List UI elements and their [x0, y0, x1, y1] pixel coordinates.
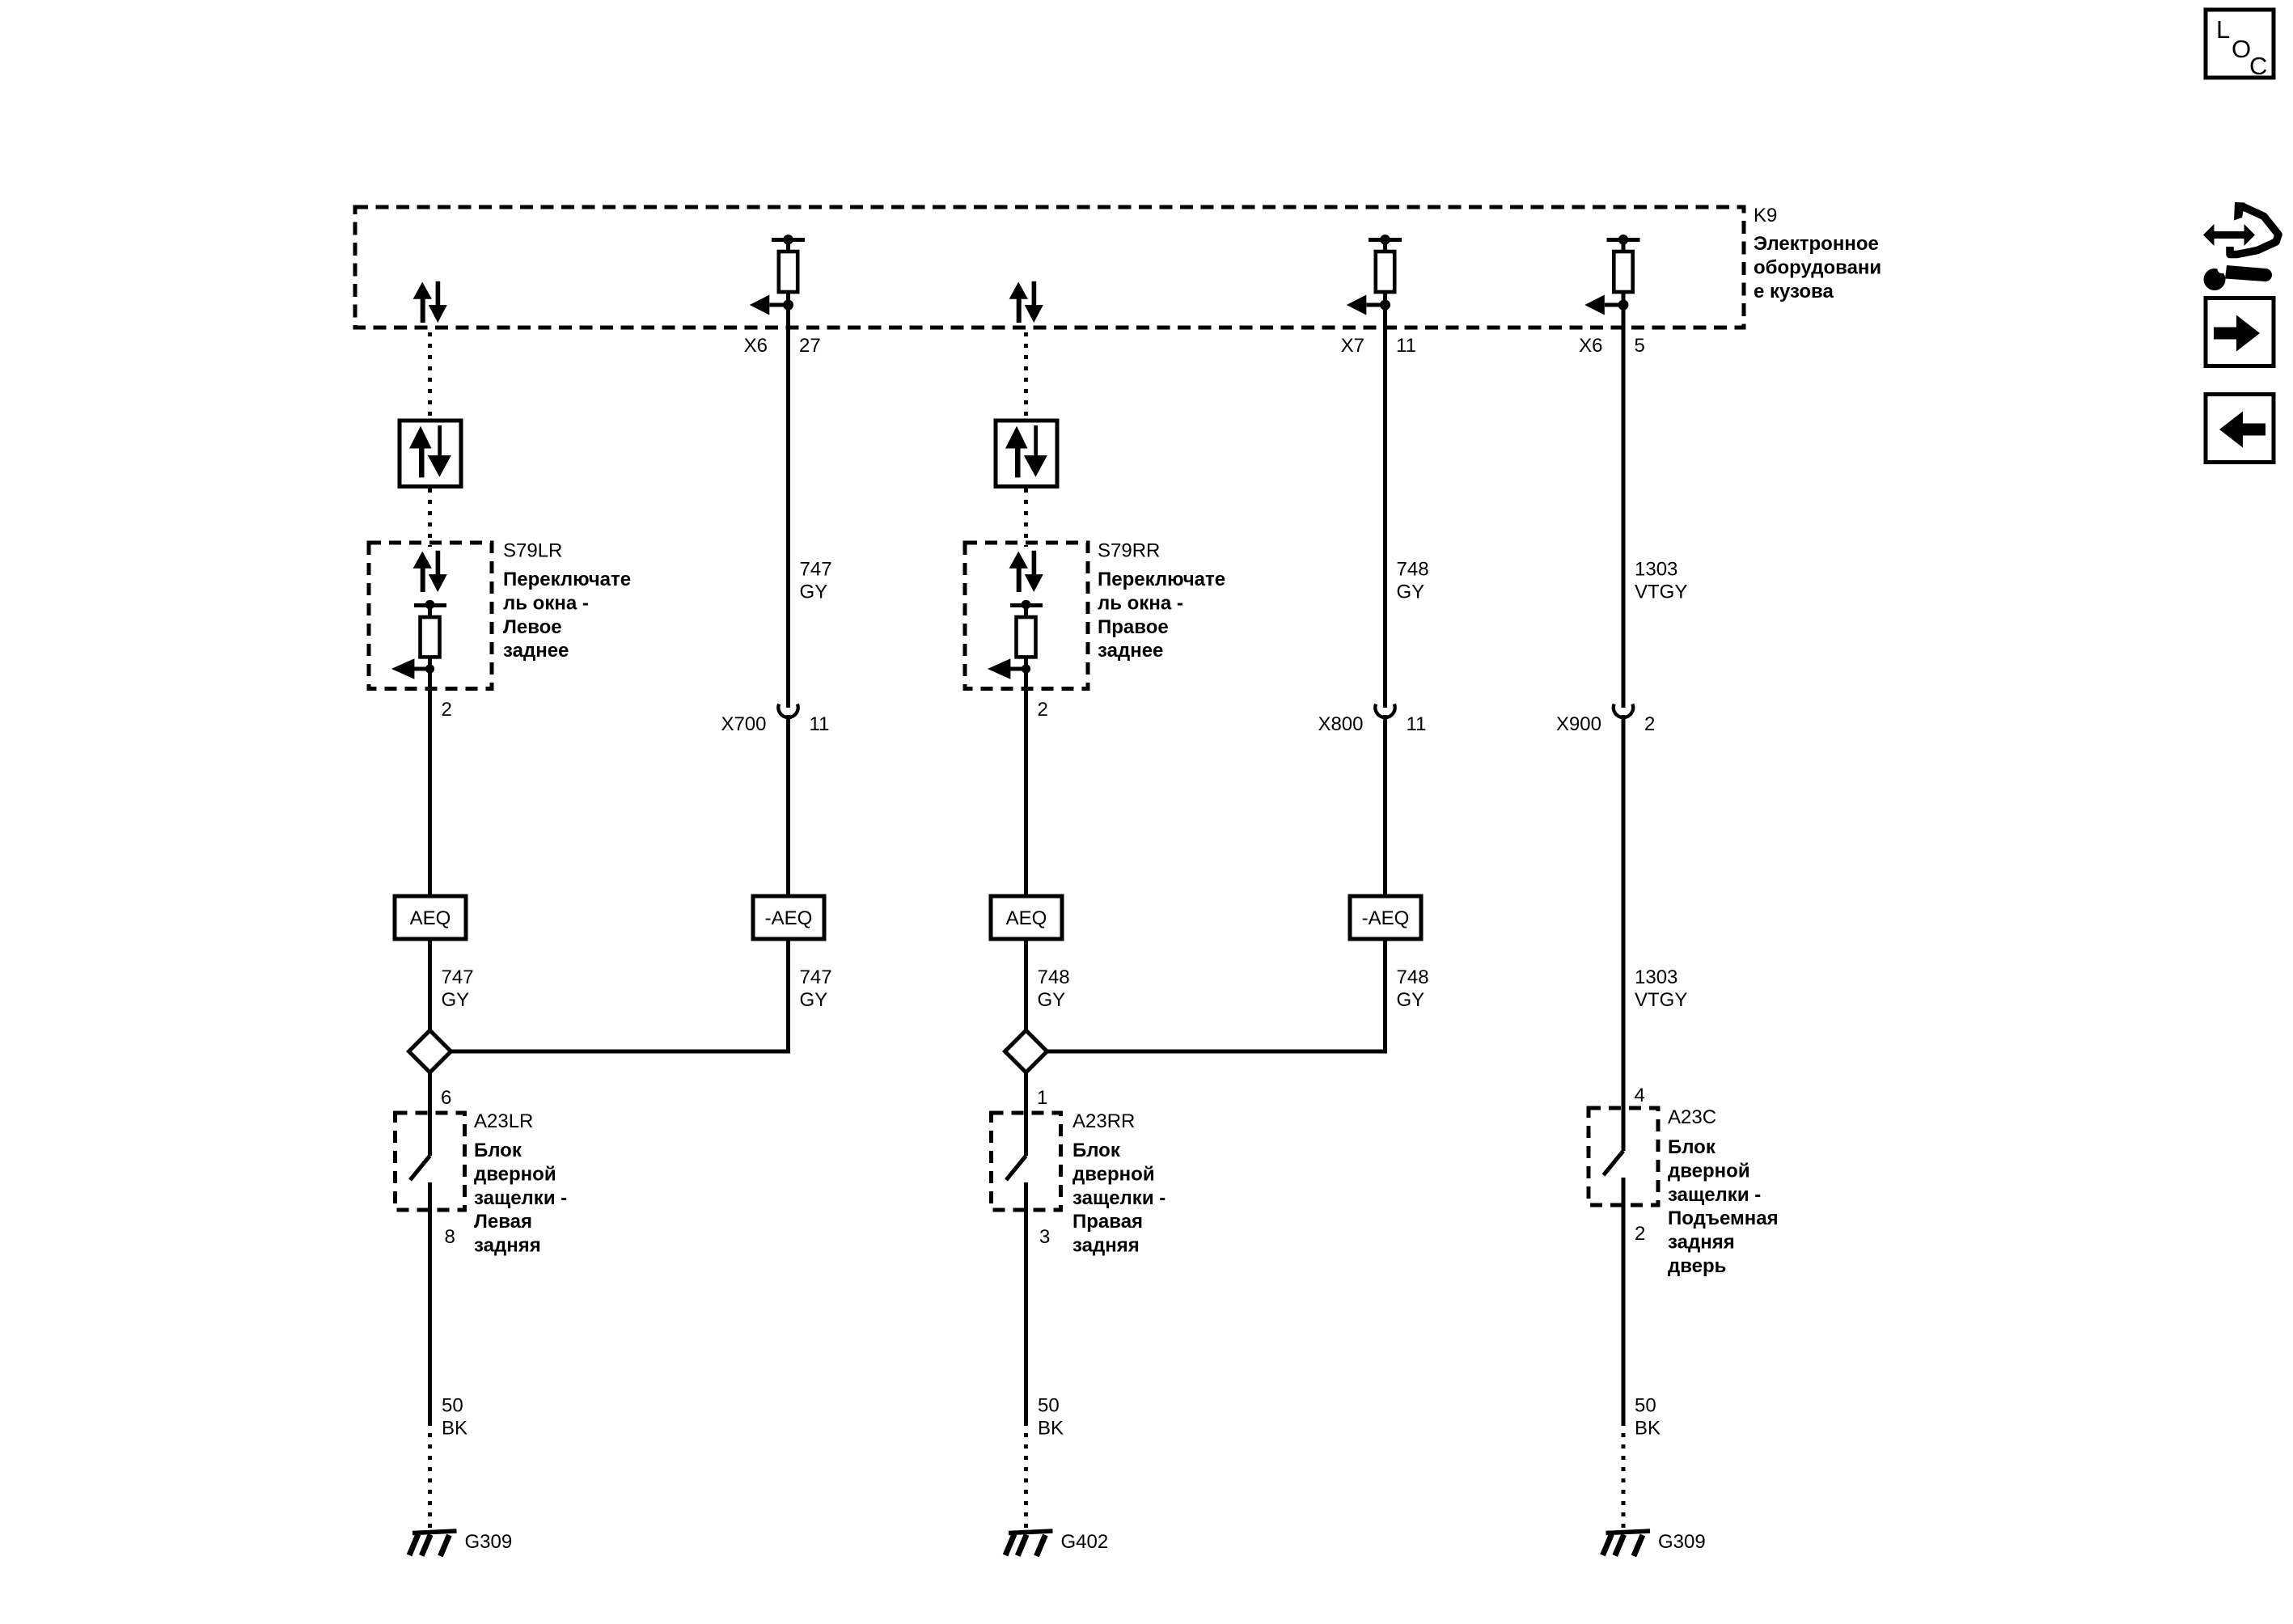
svg-text:11: 11 — [1396, 335, 1416, 357]
pin 1 of A23RR — [1037, 1087, 1047, 1109]
svg-text:GY: GY — [1038, 989, 1066, 1011]
svg-text:X700: X700 — [721, 713, 766, 735]
svg-text:G402: G402 — [1061, 1531, 1109, 1553]
svg-text:Правое: Правое — [1098, 616, 1169, 638]
svg-text:S79RR: S79RR — [1098, 540, 1160, 562]
svg-text:GY: GY — [1397, 582, 1425, 603]
ground G309 (left) — [409, 1531, 457, 1556]
ground G402 label — [1061, 1531, 1109, 1553]
K9 window-down driver output (right rear) — [1347, 235, 1402, 328]
dotted link K9 to switch icon (middle) — [1024, 332, 1028, 418]
K9 window-down driver output (left rear) — [750, 235, 805, 328]
net label -AEQ (col2) — [753, 896, 824, 939]
svg-text:1303: 1303 — [1635, 559, 1677, 581]
connector pins X7 11 — [1341, 335, 1416, 357]
door latch A23C dashed box — [1589, 1108, 1658, 1205]
pin 8 of A23LR — [445, 1226, 455, 1248]
svg-text:задняя: задняя — [1072, 1235, 1140, 1257]
svg-text:Электронное: Электронное — [1754, 233, 1879, 255]
svg-text:GY: GY — [800, 582, 828, 603]
S79RR up/down arrows — [1009, 551, 1043, 592]
svg-text:VTGY: VTGY — [1635, 989, 1687, 1011]
latch A23RR label — [1072, 1110, 1135, 1132]
wire -AEQ down and over to splice (middle) — [1047, 939, 1386, 1051]
svg-text:Левая: Левая — [474, 1211, 532, 1233]
switch S79LR description — [503, 569, 631, 662]
pin 6 of A23LR — [441, 1087, 451, 1109]
svg-text:задняя: задняя — [1668, 1232, 1735, 1254]
wire X700 to -AEQ — [786, 715, 790, 896]
svg-text:-AEQ: -AEQ — [765, 907, 813, 929]
module K9 dashed box — [355, 207, 1744, 328]
in-line connector X700 — [778, 704, 797, 718]
svg-text:1303: 1303 — [1635, 966, 1677, 988]
svg-text:3: 3 — [1039, 1226, 1050, 1248]
wire K9 X6-5 down to X900 — [1622, 328, 1626, 708]
svg-text:GY: GY — [442, 989, 470, 1011]
svg-text:748: 748 — [1397, 966, 1429, 988]
pin 2 of S79LR — [442, 699, 452, 721]
svg-text:Подъемная: Подъемная — [1668, 1207, 1779, 1229]
svg-text:дверь: дверь — [1668, 1255, 1726, 1277]
wire K9 X6-27 down to X700 — [786, 328, 790, 708]
wire label 748 GY (col3) — [1038, 966, 1070, 1011]
wire A23LR pin 8 to ground (solid) — [428, 1229, 432, 1422]
switch S79LR label — [503, 540, 562, 562]
wire label 50 BK (col5) — [1635, 1395, 1661, 1440]
svg-text:11: 11 — [810, 713, 830, 735]
svg-text:6: 6 — [441, 1087, 451, 1109]
svg-text:5: 5 — [1635, 335, 1645, 357]
latch A23C description — [1668, 1136, 1779, 1277]
svg-text:X800: X800 — [1318, 713, 1363, 735]
pin 2 of A23C — [1635, 1223, 1645, 1245]
switch S79LR dashed box — [369, 543, 492, 689]
svg-text:BK: BK — [1038, 1418, 1064, 1440]
switch S79RR description — [1098, 569, 1225, 662]
wire X900 to A23C pin 4 — [1622, 715, 1626, 1108]
svg-text:GY: GY — [800, 989, 828, 1011]
wire -AEQ down and over to splice — [451, 939, 789, 1051]
wire label 747 GY (col1) — [442, 966, 474, 1011]
svg-text:747: 747 — [800, 559, 832, 581]
in-line connector X800 — [1375, 704, 1394, 718]
dotted wire to ground G309 (left) — [428, 1422, 432, 1529]
svg-text:BK: BK — [1635, 1418, 1661, 1440]
svg-text:-AEQ: -AEQ — [1362, 907, 1410, 929]
svg-text:AEQ: AEQ — [410, 907, 451, 929]
svg-text:2: 2 — [1635, 1223, 1645, 1245]
svg-text:1: 1 — [1037, 1087, 1047, 1109]
svg-text:50: 50 — [1635, 1395, 1656, 1417]
back arrow box — [2206, 395, 2274, 463]
forward arrow box — [2206, 298, 2274, 366]
S79LR up/down arrows — [413, 551, 447, 592]
dotted link K9 to switch icon (left) — [428, 332, 432, 418]
svg-text:50: 50 — [1038, 1395, 1060, 1417]
window switch icon box (left) — [400, 421, 461, 487]
net label AEQ (middle) — [991, 896, 1062, 939]
svg-text:Переключате: Переключате — [1098, 569, 1225, 590]
S79LR resistor and output arrow — [391, 600, 446, 689]
wire splice to A23RR pin 1 — [1024, 1072, 1028, 1113]
harness navigation icon — [2203, 202, 2278, 290]
ground G402 — [1005, 1531, 1053, 1556]
wire label 1303 VTGY (col5 lower) — [1635, 966, 1687, 1011]
latch A23LR description — [474, 1140, 567, 1257]
svg-text:е кузова: е кузова — [1754, 281, 1834, 302]
svg-text:4: 4 — [1635, 1085, 1645, 1106]
svg-text:Правая: Правая — [1072, 1211, 1143, 1233]
svg-text:2: 2 — [442, 699, 452, 721]
wire splice to A23LR pin 6 — [428, 1072, 432, 1113]
svg-text:X6: X6 — [744, 335, 768, 357]
wire A23RR pin 3 to ground (solid) — [1024, 1229, 1028, 1422]
A23RR latch switch contact — [1006, 1093, 1026, 1231]
net label AEQ (left) — [395, 896, 466, 939]
connector pins X6 27 — [744, 335, 821, 357]
in-line connector X900 — [1614, 704, 1633, 718]
svg-text:VTGY: VTGY — [1635, 582, 1687, 603]
dotted link switch icon to S79RR — [1024, 488, 1028, 547]
svg-text:S79LR: S79LR — [503, 540, 562, 562]
connector pins X6 5 — [1579, 335, 1645, 357]
wire S79RR pin2 to AEQ — [1024, 689, 1028, 897]
svg-text:A23C: A23C — [1668, 1106, 1716, 1128]
ground G309 label (right) — [1658, 1531, 1706, 1553]
svg-text:заднее: заднее — [1098, 640, 1163, 662]
svg-text:Переключате: Переключате — [503, 569, 631, 590]
svg-text:G309: G309 — [1658, 1531, 1706, 1553]
wire K9 X7-11 down to X800 — [1383, 328, 1387, 708]
svg-text:C: C — [2249, 52, 2267, 80]
pin 4 of A23C — [1635, 1085, 1645, 1106]
svg-text:Блок: Блок — [1668, 1136, 1716, 1158]
connector X800 labels — [1318, 713, 1426, 735]
svg-text:2: 2 — [1038, 699, 1048, 721]
svg-text:защелки -: защелки - — [1668, 1184, 1761, 1206]
svg-text:11: 11 — [1407, 713, 1427, 735]
A23LR latch switch contact — [410, 1093, 430, 1231]
svg-text:заднее: заднее — [503, 640, 569, 662]
A23C latch switch contact — [1604, 1088, 1624, 1226]
switch S79RR label — [1098, 540, 1160, 562]
svg-text:747: 747 — [800, 966, 832, 988]
svg-text:27: 27 — [799, 335, 821, 357]
svg-text:50: 50 — [442, 1395, 463, 1417]
wire X800 to -AEQ — [1383, 715, 1387, 896]
door latch A23RR dashed box — [992, 1113, 1061, 1210]
svg-text:Блок: Блок — [474, 1140, 522, 1161]
K9 liftgate latch driver output — [1584, 235, 1639, 328]
latch A23LR label — [474, 1110, 533, 1132]
ground G309 (right) — [1603, 1531, 1651, 1556]
wire AEQ to splice (middle) — [1024, 939, 1028, 1030]
svg-text:K9: K9 — [1754, 205, 1777, 226]
svg-text:747: 747 — [442, 966, 474, 988]
svg-text:G309: G309 — [465, 1531, 513, 1553]
S79RR resistor and output arrow — [988, 600, 1043, 689]
svg-text:A23LR: A23LR — [474, 1110, 533, 1132]
svg-text:ль окна -: ль окна - — [503, 592, 589, 614]
svg-text:ль окна -: ль окна - — [1098, 592, 1183, 614]
svg-text:задняя: задняя — [474, 1235, 541, 1257]
svg-text:защелки -: защелки - — [1072, 1187, 1166, 1209]
wire label 748 GY (col4 upper) — [1397, 559, 1429, 603]
splice (left rear window) — [409, 1030, 451, 1072]
pin 2 of S79RR — [1038, 699, 1048, 721]
svg-text:X7: X7 — [1341, 335, 1364, 357]
wire label 50 BK (col3) — [1038, 1395, 1064, 1440]
connector X900 labels — [1556, 713, 1655, 735]
svg-text:защелки -: защелки - — [474, 1187, 567, 1209]
wire label 1303 VTGY (col5 upper) — [1635, 559, 1687, 603]
svg-text:X6: X6 — [1579, 335, 1602, 357]
wire label 748 GY (col4 lower) — [1397, 966, 1429, 1011]
net label -AEQ (col4) — [1350, 896, 1421, 939]
wire AEQ to splice — [428, 939, 432, 1030]
svg-text:GY: GY — [1397, 989, 1425, 1011]
svg-text:дверной: дверной — [1668, 1160, 1750, 1182]
door latch A23LR dashed box — [396, 1113, 465, 1210]
dotted wire to ground G309 (right) — [1622, 1422, 1626, 1529]
connector X700 labels — [721, 713, 829, 735]
window switch S79LR up/down arrows inside K9 — [413, 281, 447, 323]
latch A23RR description — [1072, 1140, 1166, 1257]
svg-text:дверной: дверной — [1072, 1163, 1155, 1185]
svg-text:2: 2 — [1644, 713, 1655, 735]
svg-text:L: L — [2216, 15, 2230, 44]
wire label 747 GY (col2 upper) — [800, 559, 832, 603]
window switch S79RR up/down arrows inside K9 — [1009, 281, 1043, 323]
ground G309 label (left) — [465, 1531, 513, 1553]
wire label 747 GY (col2 lower) — [800, 966, 832, 1011]
svg-text:8: 8 — [445, 1226, 455, 1248]
svg-text:Блок: Блок — [1072, 1140, 1121, 1161]
svg-text:748: 748 — [1397, 559, 1429, 581]
svg-text:A23RR: A23RR — [1072, 1110, 1135, 1132]
wire label 50 BK (col1) — [442, 1395, 467, 1440]
svg-text:оборудовани: оборудовани — [1754, 256, 1881, 278]
switch S79RR dashed box — [965, 543, 1088, 689]
LOC logo box — [2206, 10, 2274, 80]
svg-text:дверной: дверной — [474, 1163, 556, 1185]
wire A23C pin 2 to ground (solid) — [1622, 1226, 1626, 1422]
svg-text:X900: X900 — [1556, 713, 1601, 735]
svg-text:BK: BK — [442, 1418, 467, 1440]
latch A23C label — [1668, 1106, 1716, 1128]
svg-text:AEQ: AEQ — [1006, 907, 1047, 929]
module K9 description — [1754, 233, 1881, 302]
svg-text:O: O — [2232, 35, 2251, 63]
svg-text:Левое: Левое — [503, 616, 562, 638]
dotted link switch icon to S79LR — [428, 488, 432, 547]
window switch icon box (middle) — [996, 421, 1057, 487]
module K9 label — [1754, 205, 1777, 226]
pin 3 of A23RR — [1039, 1226, 1050, 1248]
wire S79LR pin2 to AEQ — [428, 689, 432, 897]
splice (right rear window) — [1005, 1030, 1047, 1072]
svg-text:748: 748 — [1038, 966, 1070, 988]
dotted wire to ground G402 — [1024, 1422, 1028, 1529]
